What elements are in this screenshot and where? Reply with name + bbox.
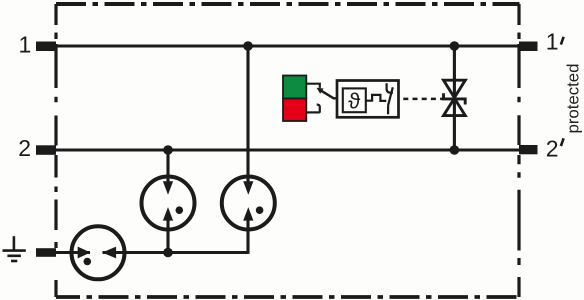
svg-text:2: 2 bbox=[546, 136, 559, 162]
svg-text:ϑ: ϑ bbox=[348, 89, 360, 114]
svg-text:2: 2 bbox=[18, 135, 31, 161]
svg-text:1: 1 bbox=[19, 31, 32, 57]
svg-text:protected: protected bbox=[564, 64, 583, 134]
svg-text:1: 1 bbox=[546, 29, 559, 55]
